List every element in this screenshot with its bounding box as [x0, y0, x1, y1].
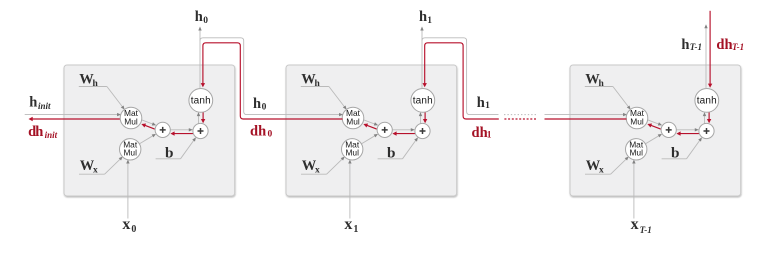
svg-text:dh: dh — [716, 37, 732, 53]
svg-text:0: 0 — [203, 16, 208, 26]
svg-text:x: x — [344, 216, 352, 233]
svg-text:x: x — [599, 166, 604, 176]
svg-text:Mul: Mul — [124, 116, 138, 126]
svg-text:0: 0 — [131, 224, 136, 235]
svg-text:0: 0 — [268, 130, 273, 140]
svg-text:1: 1 — [485, 101, 490, 111]
svg-text:b: b — [165, 144, 173, 161]
svg-text:h: h — [477, 95, 485, 111]
svg-text:tanh: tanh — [697, 95, 717, 106]
svg-text:1: 1 — [427, 16, 432, 26]
svg-text:init: init — [45, 130, 58, 140]
svg-text:Mul: Mul — [630, 116, 644, 126]
svg-text:Mul: Mul — [345, 148, 359, 158]
svg-text:h: h — [253, 96, 261, 112]
svg-text:h: h — [29, 95, 37, 111]
svg-text:1: 1 — [353, 224, 358, 235]
svg-text:T-1: T-1 — [690, 42, 702, 52]
svg-text:b: b — [387, 144, 395, 161]
svg-text:x: x — [93, 166, 98, 176]
svg-text:T-1: T-1 — [640, 225, 652, 235]
svg-text:h: h — [195, 9, 203, 25]
svg-text:x: x — [315, 166, 320, 176]
svg-text:Mul: Mul — [629, 148, 643, 158]
svg-text:tanh: tanh — [413, 95, 433, 106]
svg-text:0: 0 — [262, 102, 267, 112]
svg-text:tanh: tanh — [191, 95, 211, 106]
svg-text:x: x — [631, 216, 639, 233]
svg-text:h: h — [35, 124, 43, 140]
svg-text:1: 1 — [487, 131, 492, 141]
svg-text:b: b — [671, 144, 679, 161]
svg-text:dh: dh — [472, 125, 488, 141]
svg-text:h: h — [681, 37, 689, 53]
svg-text:init: init — [38, 101, 51, 111]
svg-text:Mul: Mul — [346, 116, 360, 126]
svg-text:T-1: T-1 — [732, 42, 744, 52]
svg-text:dh: dh — [250, 124, 266, 140]
svg-text:h: h — [93, 79, 99, 89]
svg-text:x: x — [122, 216, 130, 233]
svg-text:h: h — [419, 9, 427, 25]
svg-text:h: h — [599, 79, 605, 89]
svg-text:h: h — [315, 79, 321, 89]
svg-text:Mul: Mul — [123, 148, 137, 158]
